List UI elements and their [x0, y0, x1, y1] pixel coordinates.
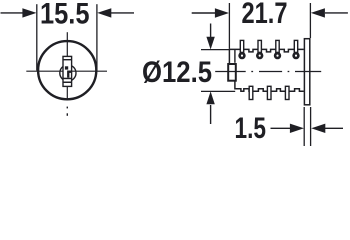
- Ø12.5 extension line top (y=50.2): [201, 49, 230, 51]
- body bottom edge with steps and notches: [235, 81, 304, 91]
- centerline dot 1: [251, 71, 253, 73]
- dim line 1.5 left segment with arrow: [271, 124, 305, 133]
- keyway internal divider mid-low: [63, 78, 72, 80]
- dim line 21.7 right segment with arrow: [311, 8, 348, 17]
- bottom tumbler 1: [249, 86, 253, 99]
- bottom tumbler 2: [267, 86, 271, 99]
- dim line 15.5 left segment with arrow: [1, 8, 37, 17]
- bottom tumbler 3: [285, 86, 289, 99]
- plug face edge line: [234, 49, 236, 62]
- key profile mark square: [65, 66, 68, 69]
- top pin 2: [257, 40, 262, 58]
- svg-text:1.5: 1.5: [235, 112, 267, 145]
- extension line left (x=36.8): [36, 4, 38, 70]
- dim line 1.5 right segment with arrow: [311, 124, 343, 133]
- flange (face plate): [304, 39, 309, 105]
- top pin 3: [275, 40, 280, 58]
- centerline dash 3 (through flange): [295, 71, 321, 73]
- key profile mark vertical bar: [67, 71, 69, 78]
- svg-text:Ø12.5: Ø12.5: [142, 56, 212, 89]
- top pin 1 (spring stem + bulb): [240, 40, 245, 58]
- dim line 15.5 right segment with arrow: [97, 8, 134, 17]
- outer circle (housing): [38, 41, 96, 99]
- top pin 4: [294, 40, 299, 58]
- body top edge with inter-pin notches: [229, 49, 303, 52]
- centerline dots below circle: [66, 107, 68, 109]
- vertical centerline: [66, 32, 68, 100]
- svg-text:21.7: 21.7: [242, 0, 288, 30]
- 1.5 extension line right (x=310.6): [310, 107, 312, 146]
- horizontal centerline: [26, 70, 107, 72]
- Ø12.5 extension line bottom (y=92): [201, 90, 235, 92]
- dim line 21.7 left segment with arrow: [192, 8, 229, 17]
- svg-text:15.5: 15.5: [40, 0, 90, 31]
- keyway internal divider lower: [63, 82, 72, 84]
- centerline dot 2: [288, 71, 290, 73]
- keyway internal divider upper: [63, 59, 72, 60]
- extension line 21.7 right (x=310.4): [309, 3, 311, 38]
- plug circle: [60, 65, 76, 81]
- centerline dash 1 (through cam box): [215, 71, 246, 73]
- Ø12.5 upper arrow (down): [206, 24, 214, 50]
- key profile mark centerline stub right: [68, 71, 72, 73]
- keyway rectangle: [63, 56, 72, 86]
- left cam box: [228, 64, 236, 81]
- centerline dash 2: [259, 71, 282, 73]
- body left edge upper: [228, 49, 230, 64]
- extension line right (x=96.9): [96, 4, 98, 70]
- extension line 21.7 left (x=229.4): [228, 3, 230, 49]
- 1.5 extension line left (x=304.2): [303, 107, 305, 146]
- Ø12.5 lower arrow (up): [206, 91, 214, 124]
